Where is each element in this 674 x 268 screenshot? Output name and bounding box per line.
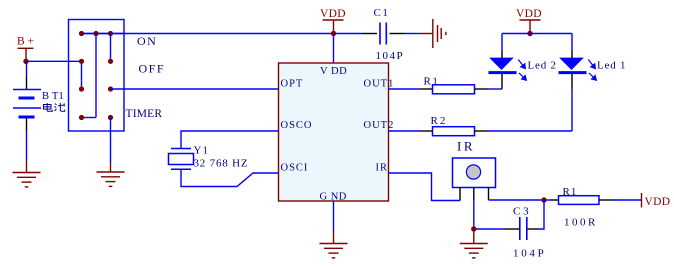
wire OUT2 to R2 <box>389 130 422 132</box>
svg-text:B +: B + <box>17 36 34 48</box>
wire VDD rail to LED2 anode <box>501 34 503 51</box>
junction at B+ node <box>23 59 28 64</box>
resistor R2 <box>433 127 475 136</box>
svg-text:C1: C1 <box>374 7 390 19</box>
LED Led2 <box>489 58 527 81</box>
ground (C1, rotated) <box>419 19 446 48</box>
svg-text:OSCO: OSCO <box>281 120 313 131</box>
svg-text:OPT: OPT <box>281 79 304 90</box>
svg-text:IR: IR <box>457 139 475 154</box>
svg-text:OUT1: OUT1 <box>364 79 395 90</box>
power port VDD (LED rail) <box>520 20 541 34</box>
resistor R1 pin 2 <box>475 88 489 90</box>
capacitor C3 <box>520 217 527 240</box>
switch S1 body <box>69 20 125 132</box>
wire C3 to ground node <box>474 228 504 230</box>
battery BT1 pin 2 <box>26 117 28 131</box>
resistor R1 (100R) pin 1 <box>550 199 559 201</box>
ground (switch) <box>97 163 125 187</box>
svg-text:V DD: V DD <box>320 66 347 77</box>
IR receiver pin 1 <box>459 188 461 201</box>
battery comment 电池 (drawn glyphs) <box>44 103 65 111</box>
svg-text:VDD: VDD <box>645 196 671 208</box>
LED2 cathode pin <box>501 74 503 89</box>
wire 100R to VDD port <box>613 199 642 201</box>
LED1 anode pin <box>571 50 573 58</box>
svg-text:OSCI: OSCI <box>281 163 309 174</box>
IR receiver pin 3 <box>488 188 490 201</box>
resistor 100R pin 2 <box>599 199 613 201</box>
wire LED1 cathode to R2 <box>571 89 573 131</box>
resistor R1 100R <box>559 196 600 205</box>
switch contact dots <box>79 31 113 120</box>
svg-text:100R: 100R <box>564 217 598 229</box>
wire R1 to LED2 <box>489 88 503 90</box>
wire R2 to LED1 <box>489 130 573 132</box>
LED2 anode pin <box>501 50 503 58</box>
svg-text:32 768 HZ: 32 768 HZ <box>194 158 249 170</box>
svg-text:Led 2: Led 2 <box>528 60 557 72</box>
wire TIMER switch to OPT pin <box>111 88 279 90</box>
svg-text:TIMER: TIMER <box>126 108 163 120</box>
power port VDD (right) <box>641 193 643 208</box>
wire node to R1 100R <box>544 199 550 201</box>
wire switch row1 (ON) internal <box>82 33 125 35</box>
svg-text:R2: R2 <box>431 115 448 127</box>
svg-text:Led 1: Led 1 <box>597 60 626 72</box>
resistor R1 pin 1 <box>421 88 433 90</box>
wire receiver pin2 to ground node <box>473 200 475 229</box>
LED1 cathode pin <box>571 74 573 89</box>
svg-text:R1: R1 <box>424 76 440 88</box>
svg-text:ON: ON <box>137 34 157 48</box>
resistor R2 pin 1 <box>421 130 433 132</box>
wire switch col1 vertical <box>81 61 83 89</box>
wire VDD led rail <box>502 33 572 35</box>
svg-text:R1: R1 <box>563 186 578 198</box>
wire switch col2 vertical <box>95 34 97 118</box>
LED Led1 <box>559 58 597 81</box>
wire IC GND pin to ground <box>333 201 335 231</box>
power port VDD (top center) <box>323 20 344 34</box>
svg-text:IR: IR <box>376 163 389 174</box>
wire C1 to ground <box>404 33 419 35</box>
ground (battery) <box>13 161 41 187</box>
svg-text:104P: 104P <box>513 248 546 260</box>
battery BT1 <box>13 90 41 118</box>
wire B+ node to switch <box>26 60 82 62</box>
svg-text:B T1: B T1 <box>42 91 64 102</box>
wire IR pin to receiver <box>389 173 461 201</box>
IR receiver U2 <box>453 158 496 188</box>
svg-text:VDD: VDD <box>516 8 542 20</box>
wire switch col3 top vertical <box>110 34 112 62</box>
junction VDD rail <box>331 31 336 36</box>
ground (IR receiver) <box>460 229 488 258</box>
capacitor C3 pin 1 <box>504 228 520 230</box>
capacitor C1 <box>380 23 386 45</box>
wire crystal to OSCI <box>181 169 279 186</box>
svg-text:G ND: G ND <box>320 192 347 203</box>
resistor R2 pin 2 <box>475 130 489 132</box>
svg-text:104P: 104P <box>376 50 405 62</box>
ground (IC GND) <box>320 231 348 258</box>
IR receiver pin 2 <box>473 188 475 201</box>
capacitor C3 pin 2 <box>527 228 538 230</box>
IC U1 body <box>279 63 389 201</box>
junction VDD led rail <box>527 31 532 36</box>
crystal Y1 <box>169 149 194 170</box>
wire B+ node down to battery <box>26 61 28 77</box>
resistor R1 <box>433 85 475 94</box>
svg-text:VDD: VDD <box>320 8 346 20</box>
wire VDD rail to IC VDD pin <box>333 34 335 64</box>
capacitor C1 pin 1 <box>363 33 378 35</box>
wire switch bottom to ground <box>110 118 112 163</box>
capacitor C1 pin 2 <box>390 33 405 35</box>
junction ground node <box>471 226 476 231</box>
power port B+ <box>18 48 34 61</box>
wire node down to C3 <box>538 200 544 229</box>
battery BT1 pin 1 <box>26 77 28 90</box>
wire switch row4 horizontal <box>82 117 97 119</box>
wire OUT1 to R1 <box>389 88 422 90</box>
wire OSCO to crystal <box>181 131 279 149</box>
svg-text:OFF: OFF <box>139 62 166 76</box>
wire ON net top rail <box>82 33 363 35</box>
svg-text:Y1: Y1 <box>194 145 209 157</box>
svg-text:C3: C3 <box>513 206 531 218</box>
wire VDD rail to LED1 anode <box>571 34 573 51</box>
junction R1/C3 node <box>541 197 546 202</box>
svg-text:OUT2: OUT2 <box>364 120 395 131</box>
wire battery to ground <box>26 131 28 161</box>
wire receiver pin3 to R1 node <box>489 199 545 201</box>
